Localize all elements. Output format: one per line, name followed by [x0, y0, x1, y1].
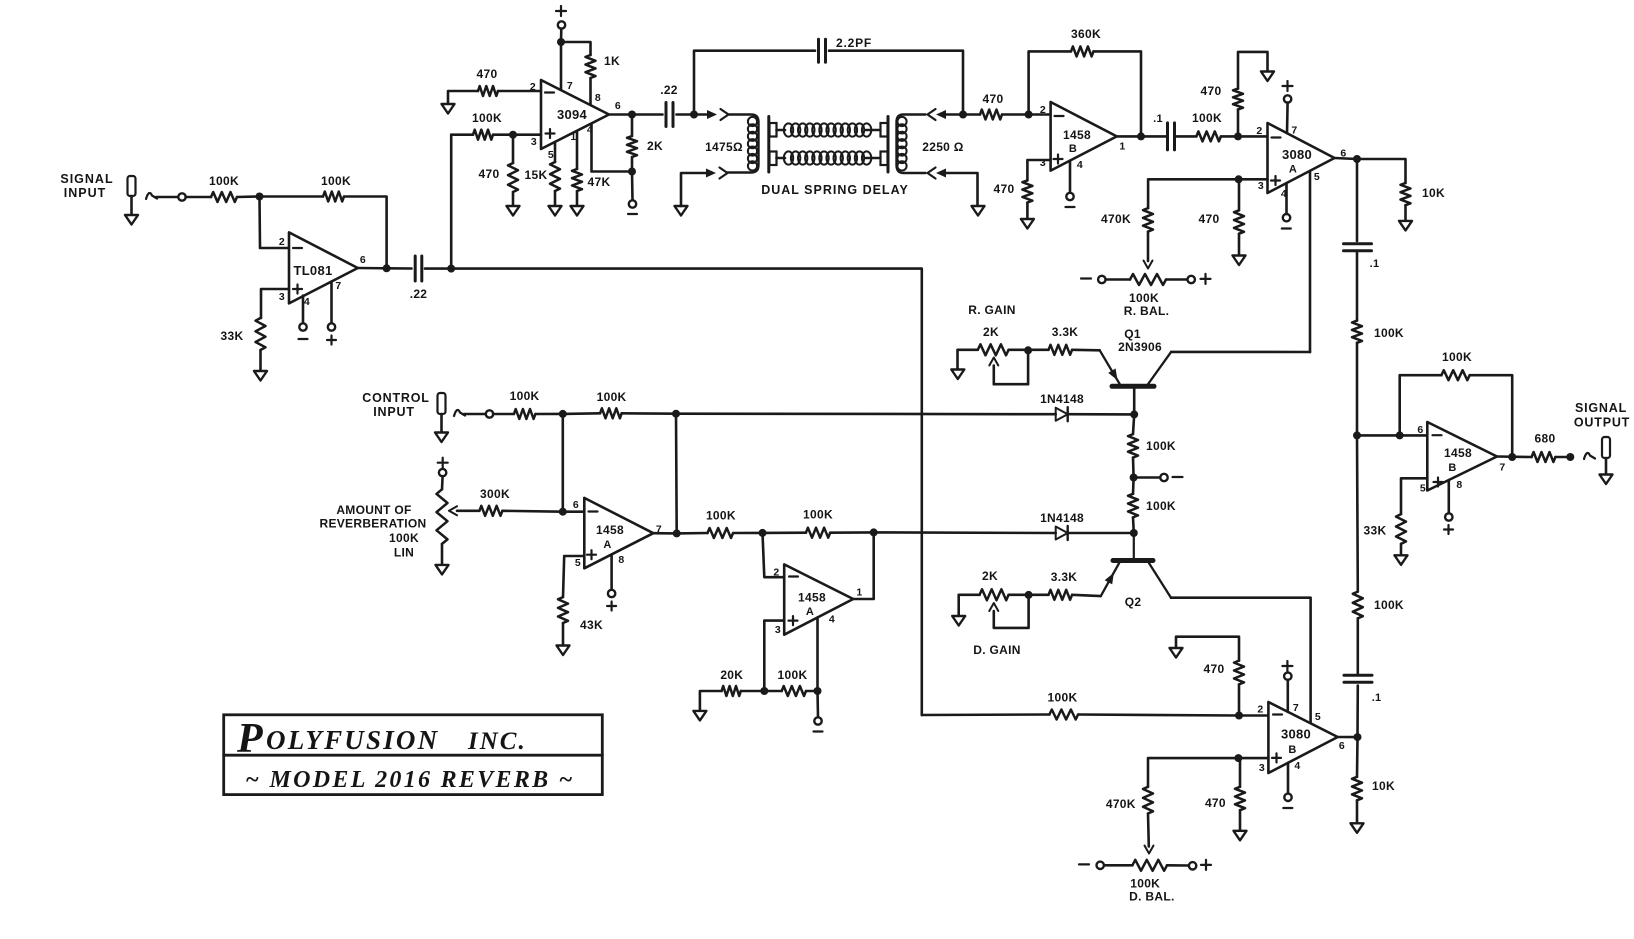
resistor 100K into pin 3 [473, 130, 493, 140]
wire pin2 node to op-amp [1029, 113, 1051, 116]
junction inverter input node [759, 529, 767, 537]
wire node to 1K [561, 42, 591, 55]
svg-text:B: B [1069, 143, 1077, 155]
svg-text:100K: 100K [1442, 350, 1472, 364]
resistor 470 pin3 bias [1235, 787, 1245, 810]
ground [1261, 72, 1274, 82]
svg-text:2: 2 [279, 236, 285, 248]
transformer secondary coil 2250 ohm [897, 115, 926, 174]
svg-text:1458: 1458 [596, 523, 624, 537]
svg-text:3: 3 [775, 624, 781, 636]
spring 1 right terminal [866, 129, 881, 132]
wire 470 to pin2 node [1002, 113, 1029, 116]
wire inv node to 100K-2 [763, 531, 806, 534]
wire pin3 node to op-amp [1238, 757, 1268, 760]
resistor 100K [514, 409, 536, 419]
wire 470K to wiper arrow [1147, 232, 1150, 261]
wire pin 1 down [576, 131, 579, 169]
resistor 300K [479, 506, 502, 516]
resistor 470 into pin 2 [478, 86, 498, 96]
svg-text:TL081: TL081 [293, 263, 332, 278]
junction tank output node [959, 111, 967, 119]
resistor 100K [708, 528, 734, 538]
wire lower-right to ground [946, 173, 978, 206]
jack J2 control input [438, 393, 446, 414]
junction 1458B output [1137, 132, 1145, 140]
junction node D [672, 410, 680, 418]
wire pin 4 down [816, 618, 819, 692]
wire 100K to pin4 node [806, 690, 818, 693]
wire 33K to ground [259, 350, 262, 371]
wire output to C2 [632, 113, 663, 116]
svg-text:470: 470 [1201, 84, 1222, 98]
junction inverter output node [870, 528, 878, 536]
spring 2 left terminal [770, 152, 777, 166]
wire wiper to 300K [457, 509, 479, 512]
op-amp U1 TL081 [289, 232, 358, 303]
wire output to C3 [1141, 135, 1167, 138]
wire tank node to 470 [963, 113, 980, 116]
svg-text:5: 5 [1314, 171, 1320, 183]
wire node to 100K [677, 532, 708, 535]
svg-text:2K: 2K [983, 325, 999, 339]
wire switch squiggle [146, 193, 157, 199]
svg-text:6: 6 [1417, 424, 1423, 436]
wire pin3 node down to 470 [1239, 758, 1242, 787]
svg-text:100K: 100K [1374, 326, 1404, 340]
svg-text:100K: 100K [706, 509, 736, 523]
svg-text:3: 3 [279, 291, 285, 303]
potentiometer D.BAL 100K [1132, 860, 1167, 871]
wire to 100K [493, 413, 514, 416]
svg-text:Q2: Q2 [1125, 595, 1142, 609]
resistor 1K [586, 55, 596, 78]
op-amp U7 3080 B [1268, 702, 1337, 773]
pin 8 supply [1448, 480, 1451, 514]
ground [557, 646, 570, 656]
wire pin2 node up to 470 [1238, 684, 1241, 715]
wire C4 to 100K [1356, 251, 1359, 321]
wire feedback to output [1094, 51, 1142, 136]
svg-text:4: 4 [304, 296, 310, 308]
resistor 100K upper [1128, 434, 1138, 458]
wire 100K to inv node [733, 532, 762, 535]
svg-text:680: 680 [1535, 432, 1556, 446]
svg-text:.1: .1 [1372, 692, 1382, 704]
svg-text:LIN: LIN [394, 546, 414, 560]
pin 7 supply [330, 282, 333, 324]
ground [442, 104, 455, 114]
junction feedback at output [1508, 453, 1516, 461]
svg-text:5: 5 [548, 149, 554, 161]
resistor 360K feedback [1071, 46, 1094, 56]
resistor 470 pin2 bias [1234, 661, 1244, 685]
wire 470 to pin 2 [498, 90, 541, 93]
svg-text:100K: 100K [1130, 877, 1160, 891]
wire 100K down to output mix node [1356, 343, 1359, 436]
wire pin 3 to 470 [1027, 160, 1050, 180]
ground [125, 215, 138, 225]
wire 100K to mid node [1132, 458, 1135, 478]
junction tank input node [690, 111, 698, 119]
junction mid node [1130, 474, 1138, 482]
svg-text:470: 470 [479, 167, 500, 181]
wire 1458A output [653, 532, 676, 535]
svg-text:~ MODEL 2016 REVERB ~: ~ MODEL 2016 REVERB ~ [245, 767, 574, 793]
svg-text:3.3K: 3.3K [1051, 570, 1078, 584]
wire 100K to node C [535, 413, 562, 416]
svg-text:R. BAL.: R. BAL. [1124, 304, 1169, 318]
svg-text:2N3906: 2N3906 [1118, 340, 1162, 354]
wire node B up to 3094 input [450, 135, 453, 269]
ground [436, 565, 449, 575]
wire node down to 470 [512, 135, 515, 163]
svg-text:6: 6 [360, 254, 366, 266]
ground [1021, 219, 1034, 229]
wiper arrow R.GAIN [989, 358, 998, 366]
wire 3.3K to Q1 emitter [1072, 348, 1100, 351]
wire 100K to inv output node [830, 531, 874, 534]
wire control line to D1 [676, 412, 1056, 415]
junction 1458A output node [673, 529, 681, 537]
core bar right [887, 117, 890, 173]
resistor 680 [1532, 452, 1556, 462]
svg-text:2: 2 [1256, 125, 1262, 137]
wire mid node to terminal [1134, 476, 1161, 479]
wire 3094 output [609, 113, 632, 116]
resistor 10K [1401, 183, 1411, 205]
wire pin 3 [764, 621, 784, 691]
spring 2 right terminal [866, 157, 881, 160]
svg-text:4: 4 [829, 614, 835, 626]
svg-text:100K: 100K [1146, 499, 1176, 513]
svg-text:7: 7 [567, 80, 573, 92]
capacitor C4 .1 [1344, 242, 1372, 245]
svg-text:20K: 20K [720, 668, 743, 682]
wire pin2 node to op-amp [1238, 135, 1268, 138]
svg-text:8: 8 [1456, 479, 1462, 491]
resistor 2K [627, 136, 637, 157]
wire 1458B output [1117, 135, 1141, 138]
pin 8 supply [610, 555, 613, 591]
svg-text:5: 5 [1420, 483, 1426, 495]
svg-text:4: 4 [1077, 159, 1083, 171]
node B junction [447, 265, 455, 273]
wire output to 680 [1497, 455, 1532, 458]
junction output terminal [1566, 453, 1574, 461]
junction pin 6 node [559, 508, 567, 516]
wire 15K to ground [554, 191, 557, 206]
pin 7 supply [1282, 665, 1292, 667]
wire 100K to Q2 base node [1132, 517, 1135, 533]
wire node D down to 1458A output node [675, 414, 678, 534]
junction 3080B output node [1354, 733, 1362, 741]
wire 100K up to output mix node [1356, 435, 1359, 591]
svg-text:AMOUNT OF: AMOUNT OF [336, 503, 411, 517]
resistor 470 pin2 bias [1233, 89, 1243, 110]
svg-text:5: 5 [575, 557, 581, 569]
wire jack to ground [1605, 458, 1608, 475]
svg-text:100K: 100K [1374, 598, 1404, 612]
wire to terminal [464, 413, 486, 416]
wire 3080A output [1335, 158, 1358, 159]
svg-text:470K: 470K [1101, 212, 1131, 226]
svg-text:P: P [236, 716, 263, 762]
resistor 20K [722, 686, 741, 696]
svg-text:6: 6 [573, 499, 579, 511]
svg-text:3094: 3094 [557, 107, 588, 122]
resistor 3.3K [1049, 345, 1073, 355]
wire 470 to ground hook [1176, 637, 1239, 661]
svg-text:7: 7 [1499, 462, 1505, 474]
wire C5 to 100K [1357, 618, 1360, 675]
svg-text:1: 1 [570, 131, 576, 143]
svg-text:47K: 47K [588, 175, 611, 189]
svg-text:B: B [1288, 744, 1296, 756]
svg-text:43K: 43K [580, 618, 603, 632]
capacitor C5 .1 [1344, 674, 1372, 677]
ground lower-left [675, 206, 688, 216]
wire switch squiggle output [1584, 453, 1595, 459]
ground [571, 206, 584, 216]
wire supply to node [560, 29, 563, 42]
wire mix node to pin6 node [1357, 434, 1400, 437]
ground [1234, 831, 1247, 841]
wire feedback riser left [1029, 51, 1071, 114]
svg-text:100K: 100K [510, 389, 540, 403]
wire 470 to ground [1239, 810, 1242, 831]
wire output to C1 [387, 267, 412, 270]
op-amp U6 1458 A [784, 564, 853, 634]
svg-text:A: A [1289, 164, 1297, 176]
wire vertical to 100K [451, 133, 473, 136]
wire 100K to 3080A pin2 node [1221, 135, 1238, 138]
svg-text:470: 470 [1199, 212, 1220, 226]
ground [1399, 221, 1412, 231]
svg-text:D. BAL.: D. BAL. [1129, 890, 1174, 904]
svg-text:.1: .1 [1370, 258, 1380, 270]
resistor 470K to D.BAL wiper [1143, 787, 1153, 814]
resistor 100K feedback [806, 528, 830, 538]
svg-text:100K: 100K [778, 668, 808, 682]
wire node to pin 3 [513, 133, 541, 136]
wire pot left to ground [959, 595, 980, 616]
svg-text:7: 7 [1293, 702, 1299, 714]
junction 3094 supply node [557, 38, 565, 46]
svg-text:100K: 100K [1192, 111, 1222, 125]
svg-text:3.3K: 3.3K [1052, 325, 1079, 339]
junction wiper node [1024, 346, 1032, 354]
wire R2 to TL081 output node [344, 197, 387, 269]
capacitor C1 .22 [414, 256, 417, 281]
resistor 15K [550, 162, 560, 191]
wire pin 4 down to 2K node [592, 124, 633, 172]
ground [972, 206, 985, 216]
wire wiper loop [994, 595, 1029, 628]
svg-text:10K: 10K [1422, 186, 1445, 200]
transformer primary coil 1475 ohm [728, 115, 759, 173]
junction Q1 base node [1130, 410, 1138, 418]
svg-text:3080: 3080 [1282, 147, 1312, 162]
junction node C [559, 410, 567, 418]
ground [1395, 555, 1408, 565]
wire pot left to ground [958, 350, 978, 370]
core bar left [767, 117, 770, 173]
resistor 470K to R.BAL wiper [1143, 208, 1153, 232]
wire pot to ground [441, 544, 444, 565]
svg-text:OUTPUT: OUTPUT [1574, 416, 1630, 430]
wire D1 to base node [1068, 413, 1135, 416]
svg-text:INPUT: INPUT [373, 405, 415, 419]
wire output node down to C4 [1356, 159, 1359, 241]
resistor 100K bias [782, 686, 806, 696]
svg-text:100K: 100K [389, 531, 419, 545]
svg-text:3: 3 [1259, 762, 1265, 774]
wire jack to ground [440, 414, 443, 433]
svg-text:8: 8 [618, 554, 624, 566]
wire node to 100K [764, 690, 781, 693]
resistor 47K [572, 169, 582, 191]
jack J1 signal input [128, 176, 136, 196]
svg-text:300K: 300K [480, 487, 510, 501]
resistor R2 100K feedback [323, 192, 344, 202]
junction pin3 node [509, 131, 517, 139]
svg-text:100K: 100K [597, 390, 627, 404]
wire node C down to pin 6 node [561, 414, 564, 512]
wire TL081 output [358, 267, 387, 270]
junction pin 6 node [1396, 431, 1404, 439]
wire 10K to ground [1356, 800, 1359, 823]
resistor 470 pin3 bias [1234, 210, 1244, 233]
op-amp U2 3094 [541, 80, 609, 149]
svg-text:2K: 2K [982, 569, 998, 583]
wire 100K to pin2 node [1078, 715, 1239, 716]
svg-text:3: 3 [1258, 180, 1264, 192]
svg-text:INPUT: INPUT [64, 186, 107, 200]
svg-text:100K: 100K [209, 174, 239, 188]
svg-text:10K: 10K [1372, 779, 1395, 793]
resistor 3.3K [1049, 590, 1073, 600]
resistor 100K [1353, 592, 1363, 619]
resistor 100K [1196, 131, 1221, 141]
svg-text:1458: 1458 [798, 591, 826, 605]
junction 2K bottom [628, 168, 636, 176]
wire pin2 node up to 470 [1237, 109, 1240, 136]
wire pin3 node left to R.BAL riser [1148, 179, 1239, 208]
wire Q1 base down [1133, 389, 1136, 415]
junction output mix node [1353, 431, 1361, 439]
svg-text:1: 1 [856, 587, 862, 599]
svg-text:100K: 100K [321, 174, 351, 188]
resistor 470 [980, 110, 1002, 120]
svg-text:D. GAIN: D. GAIN [973, 643, 1020, 657]
svg-text:1N4148: 1N4148 [1040, 511, 1084, 525]
wire node to terminal [816, 691, 819, 717]
supply + pot top [438, 462, 448, 464]
junction 3080B pin 3 node [1234, 754, 1242, 762]
svg-text:2.2PF: 2.2PF [836, 36, 872, 50]
jack J3 signal output [1602, 437, 1610, 458]
wire node to op-amp [563, 510, 585, 513]
wire switch squiggle [454, 410, 465, 416]
svg-text:33K: 33K [221, 329, 244, 343]
op-amp U8 1458 B output [1427, 422, 1497, 491]
svg-text:1458: 1458 [1444, 446, 1472, 460]
wiper arrow D.GAIN [989, 603, 998, 611]
junction wiper node [1025, 591, 1033, 599]
wire 470 to ground hook [1238, 52, 1268, 89]
title box divider [224, 754, 603, 757]
wire jack to ground [130, 196, 133, 215]
ground [952, 616, 965, 626]
wire pin6 node to op-amp [1400, 434, 1428, 437]
wiper arrow [449, 506, 457, 515]
wire 470 to ground [1238, 234, 1241, 256]
wire 20K to node [741, 690, 765, 693]
wire 470 to ground [1026, 203, 1029, 220]
junction Q2 base node [1130, 529, 1138, 537]
junction TL081 output [383, 264, 391, 272]
svg-text:2: 2 [1257, 704, 1263, 716]
svg-text:7: 7 [335, 280, 341, 292]
op-amp U3 1458 B [1051, 102, 1117, 171]
node A junction [256, 193, 264, 201]
pin 4 supply [1287, 763, 1290, 794]
svg-text:R. GAIN: R. GAIN [968, 303, 1015, 317]
svg-text:REVERBERATION: REVERBERATION [319, 517, 426, 531]
wire 2.2PF loop left riser [694, 51, 815, 115]
svg-text:7: 7 [1291, 125, 1297, 137]
resistor 100K lower [1128, 494, 1138, 518]
wire 47K to ground [576, 191, 579, 206]
svg-text:100K: 100K [803, 507, 833, 521]
wire feedback riser [1400, 375, 1442, 435]
wire to pot [441, 476, 444, 489]
wire pot to 3.3K [1009, 593, 1049, 596]
svg-text:DUAL SPRING DELAY: DUAL SPRING DELAY [761, 183, 909, 197]
resistor 470 [1022, 180, 1032, 202]
wire 680 to output dot [1555, 456, 1570, 459]
pin 4 supply [1285, 183, 1288, 214]
svg-text:470: 470 [983, 92, 1004, 106]
resistor 100K into 3080B [1049, 710, 1078, 720]
svg-text:33K: 33K [1364, 524, 1387, 538]
wire 2.2PF loop right riser [829, 51, 963, 115]
ground [951, 370, 964, 380]
resistor 33K [1396, 514, 1406, 544]
wire tank upper-right arrow [928, 109, 936, 120]
resistor 100K [600, 408, 622, 418]
svg-text:SIGNAL: SIGNAL [1575, 401, 1627, 415]
pin 7 supply [1283, 85, 1293, 87]
wire 100K to pin3 node [493, 133, 513, 136]
wire pin3 node down to 470 [1238, 179, 1241, 210]
svg-text:3080: 3080 [1281, 727, 1311, 742]
svg-text:INC.: INC. [467, 728, 527, 755]
pin 4 supply [1069, 161, 1072, 193]
potentiometer R.BAL 100K [1130, 274, 1166, 285]
wire squiggle to terminal [156, 196, 178, 199]
junction pin 4 node [814, 687, 822, 695]
wire mixer column corner to 100K [922, 713, 1050, 716]
svg-text:5: 5 [1315, 711, 1321, 723]
svg-text:B: B [1448, 462, 1456, 474]
ground [1233, 256, 1246, 266]
ground [1600, 475, 1613, 485]
wire pin 5 to Q1 collector [1309, 171, 1312, 352]
svg-text:470K: 470K [1106, 797, 1136, 811]
svg-text:470: 470 [994, 182, 1015, 196]
